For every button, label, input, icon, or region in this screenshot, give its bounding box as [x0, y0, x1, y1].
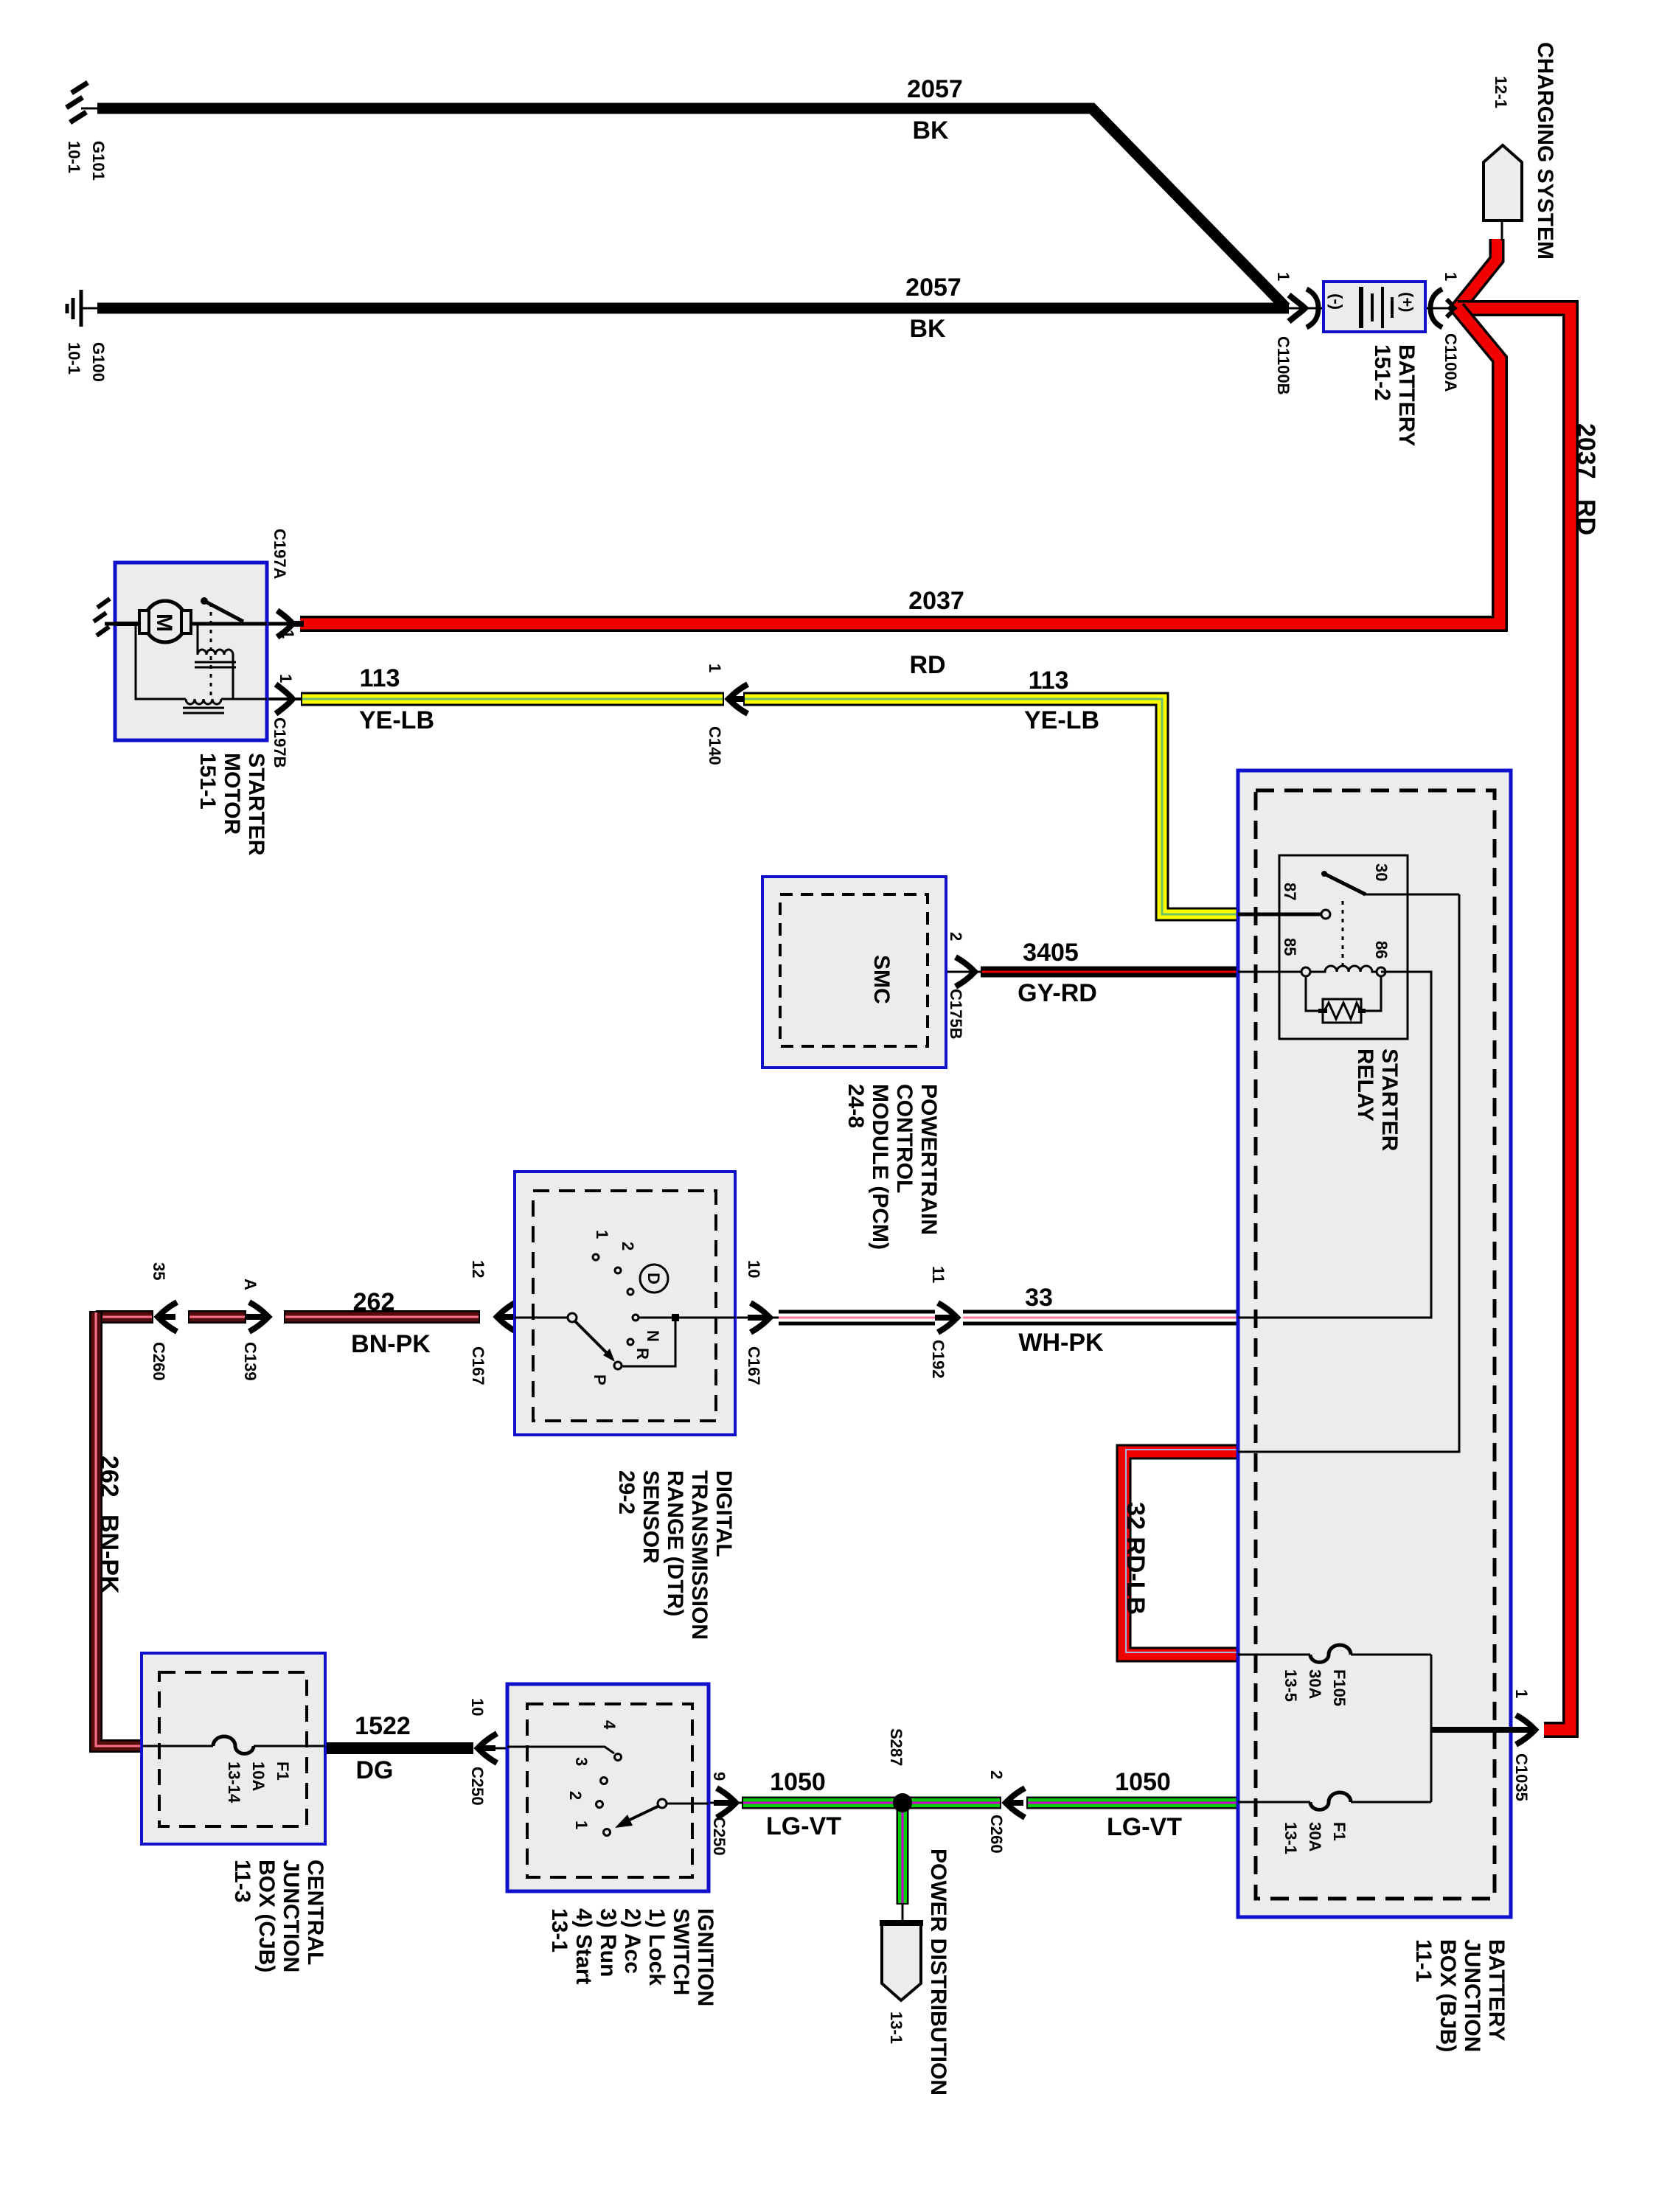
connector C250 left symbol [478, 1733, 497, 1763]
svg-text:2057: 2057 [905, 274, 961, 302]
svg-text:C250: C250 [468, 1767, 487, 1806]
digital transmission range (DTR) sensor box [515, 1172, 735, 1435]
ignition contacts [507, 1747, 614, 1753]
wire 2037 RD battery to BJB C1035 (right vertical) [1458, 308, 1571, 1730]
node S287 splice [893, 1793, 912, 1812]
svg-text:C197A: C197A [271, 529, 289, 580]
svg-text:11: 11 [929, 1266, 947, 1283]
svg-text:1: 1 [1441, 272, 1460, 281]
svg-text:C1100B: C1100B [1274, 336, 1293, 395]
svg-text:10: 10 [745, 1260, 763, 1278]
svg-text:GY-RD: GY-RD [1018, 979, 1097, 1007]
svg-text:262: 262 [353, 1288, 395, 1316]
svg-text:RD: RD [909, 651, 945, 679]
fuse F1 30A [1238, 1655, 1431, 1809]
DTR rotary contacts [515, 1317, 568, 1319]
svg-text:1: 1 [279, 630, 297, 639]
svg-text:262: 262 [95, 1455, 123, 1498]
svg-text:2: 2 [566, 1791, 585, 1800]
svg-text:LG-VT: LG-VT [1107, 1813, 1182, 1841]
svg-text:BK: BK [912, 116, 949, 145]
wire 1050 LG-VT ignition to BJB [742, 1797, 1239, 1809]
connector C167 left symbol [497, 1302, 516, 1332]
svg-text:12: 12 [469, 1260, 487, 1278]
wire thin ignition pin9 lead [709, 1802, 743, 1804]
battery junction box (BJB) [1238, 771, 1511, 1917]
svg-text:C197B: C197B [271, 717, 289, 768]
svg-text:87: 87 [1281, 883, 1299, 900]
starter motor 151-1 box [94, 563, 267, 740]
svg-text:POWER DISTRIBUTION: POWER DISTRIBUTION [926, 1848, 950, 2096]
svg-text:13-1: 13-1 [887, 2011, 905, 2044]
relay coil 85-86 [1238, 971, 1306, 973]
svg-text:3: 3 [572, 1757, 591, 1766]
wire 2057 BK lower (G100 to battery) [97, 303, 1289, 314]
wire 262 BN-PK DTR to CJB (left chain) [96, 1310, 480, 1324]
svg-text:C140: C140 [706, 726, 724, 765]
svg-text:C1035: C1035 [1512, 1753, 1531, 1801]
motor ground return + hold-in coil [136, 624, 186, 699]
svg-text:1: 1 [572, 1820, 591, 1829]
svg-text:1522: 1522 [355, 1712, 411, 1740]
connector C1100A symbol [1430, 289, 1467, 327]
wire thin DTR pin12 lead [497, 1317, 516, 1319]
svg-text:P: P [591, 1374, 609, 1385]
svg-text:YE-LB: YE-LB [359, 706, 434, 734]
svg-text:CHARGING SYSTEM: CHARGING SYSTEM [1533, 42, 1557, 260]
connector C1035 symbol [1513, 1715, 1535, 1745]
connector C260 symbol (wire 262) [158, 1302, 177, 1332]
svg-text:DG: DG [356, 1756, 394, 1784]
relay 30 switch [1321, 871, 1327, 877]
svg-text:2: 2 [619, 1242, 637, 1251]
svg-text:9: 9 [710, 1772, 728, 1781]
svg-text:C175B: C175B [947, 989, 965, 1039]
power distribution arrow [880, 1923, 923, 2000]
connector C250 right symbol [714, 1788, 736, 1818]
wire 2057 BK upper (G101 to junction) [97, 108, 1286, 307]
svg-text:C260: C260 [987, 1815, 1006, 1854]
svg-text:1050: 1050 [770, 1768, 826, 1796]
svg-text:C167: C167 [469, 1346, 487, 1385]
ground G100 [67, 290, 100, 327]
svg-text:10: 10 [468, 1698, 487, 1716]
wire 113 YE-LB C140 to BJB starter relay [743, 699, 1238, 914]
svg-text:LG-VT: LG-VT [766, 1812, 841, 1840]
wire 1050 LG-VT S287 branch to power distribution [897, 1803, 909, 1926]
svg-text:BK: BK [909, 315, 946, 343]
svg-text:1050: 1050 [1115, 1768, 1171, 1796]
connector C192 symbol [935, 1303, 957, 1332]
starter relay [1238, 855, 1459, 1452]
svg-text:(-): (-) [1327, 293, 1346, 310]
wire 32 RD-LB loop [1124, 1450, 1238, 1655]
svg-text:86: 86 [1372, 941, 1391, 959]
svg-text:1: 1 [706, 664, 724, 672]
svg-text:RD: RD [1572, 499, 1600, 535]
svg-text:2: 2 [947, 932, 965, 941]
connector C260 symbol (wire 1050) [1006, 1788, 1025, 1818]
svg-text:BN-PK: BN-PK [95, 1514, 123, 1594]
svg-text:30: 30 [1372, 863, 1391, 881]
svg-text:C192: C192 [929, 1340, 947, 1379]
wire 2037 RD charging system branch [1458, 221, 1502, 308]
connector C1100B symbol [1289, 289, 1318, 327]
central junction box (CJB) [142, 1653, 325, 1844]
relay economizer resistor [1306, 976, 1323, 1011]
svg-text:12-1: 12-1 [1492, 76, 1510, 108]
ground symbol at starter [94, 599, 110, 636]
svg-text:A: A [241, 1279, 260, 1290]
wire thin DTR pin10 lead [735, 1317, 779, 1319]
svg-text:N: N [644, 1330, 662, 1342]
connector C197A symbol [277, 611, 304, 637]
svg-text:85: 85 [1281, 938, 1299, 956]
svg-text:3405: 3405 [1023, 939, 1079, 967]
fuse F1 10A [143, 1745, 213, 1747]
connector C167 right symbol [748, 1303, 770, 1332]
relay internal dashed link [1342, 901, 1344, 966]
svg-text:M: M [152, 613, 176, 632]
battery 151-2 [1324, 282, 1425, 332]
wire 113 YE-LB starter motor to C140 [267, 698, 724, 700]
wire 2037 RD battery to starter motor [300, 308, 1500, 624]
svg-text:R: R [633, 1348, 652, 1360]
svg-text:(+): (+) [1398, 292, 1416, 313]
wire 262 BN-PK vertical to CJB [96, 1311, 143, 1746]
svg-text:113: 113 [1029, 667, 1069, 695]
svg-text:S287: S287 [887, 1728, 905, 1766]
wire relay86 to WH-PK [1238, 972, 1431, 1318]
powertrain control module (PCM) box [762, 877, 946, 1068]
wire 33 WH-PK C167 to C192 [779, 1312, 935, 1324]
svg-text:C167: C167 [745, 1346, 763, 1385]
svg-text:2: 2 [987, 1770, 1006, 1779]
connector C197B symbol [276, 684, 293, 714]
svg-text:BN-PK: BN-PK [351, 1330, 431, 1358]
svg-text:C1100A: C1100A [1441, 333, 1460, 392]
wire thin battery positive lead [1425, 307, 1458, 310]
svg-text:33: 33 [1025, 1284, 1053, 1312]
ignition switch box [507, 1684, 709, 1891]
svg-text:C139: C139 [241, 1342, 260, 1381]
svg-text:2037: 2037 [908, 587, 964, 615]
motor armature M [115, 622, 145, 626]
svg-text:1: 1 [276, 674, 295, 683]
wire 1522 DG CJB to ignition [325, 1742, 473, 1754]
svg-text:YE-LB: YE-LB [1024, 706, 1099, 734]
relay 87 terminal [1238, 913, 1321, 917]
fuse F105 30A [1238, 1645, 1431, 1662]
charging system arrow [1484, 145, 1522, 220]
svg-text:32 RD-LB: 32 RD-LB [1121, 1502, 1150, 1615]
svg-text:35: 35 [150, 1262, 168, 1280]
svg-text:SMC: SMC [869, 955, 894, 1004]
connector C140 symbol [728, 684, 748, 714]
wire relay30 to RD-LB loop [1238, 894, 1459, 1452]
solenoid pull-in coil [197, 624, 199, 655]
svg-text:1: 1 [1512, 1689, 1531, 1698]
svg-text:WH-PK: WH-PK [1018, 1329, 1104, 1357]
wire thin SMC pin2 lead [946, 971, 982, 973]
connector C175B symbol [956, 957, 975, 987]
svg-text:4: 4 [600, 1720, 619, 1730]
DTR output wiring [639, 1317, 735, 1319]
svg-text:113: 113 [360, 664, 400, 692]
connector C139 symbol [246, 1302, 268, 1332]
wire fuse bus to C1035 [1430, 1655, 1433, 1802]
svg-text:1: 1 [593, 1230, 611, 1239]
wire thin battery negative lead [1286, 307, 1324, 310]
svg-text:C250: C250 [710, 1817, 728, 1856]
wire 3405 GY-RD SMC to relay 85 [981, 967, 1238, 978]
svg-text:1: 1 [1274, 272, 1293, 281]
wire 33 WH-PK C192 to BJB [963, 1312, 1238, 1324]
ignition blade [658, 1799, 667, 1808]
svg-text:2037: 2037 [1572, 423, 1600, 479]
wire thin starter C197A lead [267, 622, 304, 626]
svg-text:D: D [644, 1273, 663, 1284]
wire thin BJB C1035 output [1431, 1727, 1517, 1733]
wire thin ignition pin10 lead [478, 1747, 509, 1750]
solenoid contact switch [191, 622, 267, 626]
svg-text:C260: C260 [150, 1342, 168, 1381]
svg-text:2057: 2057 [907, 75, 963, 103]
ground G101 [66, 83, 100, 122]
